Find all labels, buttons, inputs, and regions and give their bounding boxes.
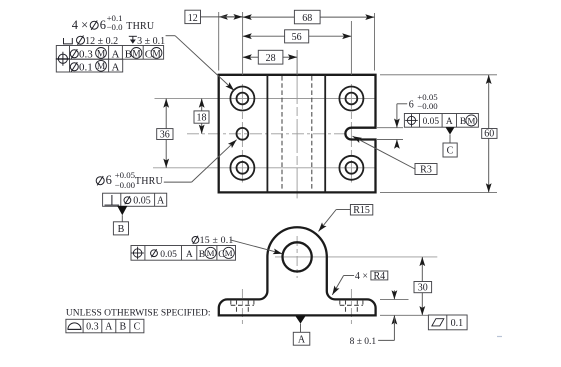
svg-text:0.1: 0.1 bbox=[79, 61, 93, 73]
svg-text:M: M bbox=[207, 248, 215, 258]
callout dia6 THRU (datum B hole) bbox=[96, 140, 236, 190]
horizontal centerline middle row bbox=[187, 133, 346, 135]
dimension 8±0.1 bbox=[350, 290, 395, 347]
vertical centerline plate middle bbox=[296, 70, 298, 198]
counterbored hole bottom-left bbox=[230, 156, 254, 180]
small hole datum B bbox=[237, 128, 249, 140]
hole vertical centerline bbox=[296, 236, 298, 278]
callout cbore dia12 depth 3 bbox=[64, 36, 235, 91]
svg-text:B: B bbox=[199, 250, 205, 260]
svg-text:60: 60 bbox=[484, 129, 494, 140]
extension line right hole centerline (top) bbox=[350, 21, 352, 75]
svg-text:A: A bbox=[105, 322, 113, 333]
svg-text:A: A bbox=[446, 117, 453, 127]
vertical centerline left hole column bbox=[241, 84, 243, 183]
svg-text:R4: R4 bbox=[373, 271, 385, 282]
svg-text:THRU: THRU bbox=[135, 176, 164, 187]
svg-text:4 ×: 4 × bbox=[355, 271, 368, 282]
position FCF dia15 bbox=[131, 246, 236, 261]
svg-text:28: 28 bbox=[266, 53, 276, 64]
extension base top right bbox=[380, 298, 409, 300]
svg-text:A: A bbox=[298, 335, 306, 346]
horizontal centerline bottom hole row bbox=[153, 167, 376, 169]
leader to top-left hole bbox=[166, 35, 176, 37]
svg-text:R3: R3 bbox=[420, 164, 432, 175]
svg-text:0.05: 0.05 bbox=[423, 117, 440, 127]
svg-text:30: 30 bbox=[418, 283, 428, 294]
svg-text:M: M bbox=[467, 116, 475, 126]
svg-text:UNLESS OTHERWISE SPECIFIED:: UNLESS OTHERWISE SPECIFIED: bbox=[66, 309, 211, 319]
hidden line bore left bbox=[281, 76, 283, 191]
dimension 36 bbox=[157, 99, 173, 168]
profile of surface FCF bbox=[66, 319, 144, 333]
svg-text:M: M bbox=[225, 248, 233, 258]
svg-text:−0.00: −0.00 bbox=[115, 180, 136, 190]
svg-text:C: C bbox=[134, 322, 141, 333]
svg-text:B: B bbox=[119, 322, 126, 333]
hole dia15 front bbox=[283, 242, 312, 271]
dimension 6 notch bbox=[397, 92, 438, 146]
horizontal centerline top hole row bbox=[155, 98, 376, 100]
dia15 callout bbox=[192, 235, 282, 254]
hidden lines left flange bbox=[231, 300, 254, 315]
svg-text:56: 56 bbox=[292, 32, 302, 43]
svg-text:0.3: 0.3 bbox=[79, 48, 93, 60]
R3 callout bbox=[353, 136, 438, 175]
svg-text:B: B bbox=[118, 224, 125, 235]
counterbore symbol bbox=[64, 38, 73, 44]
svg-text:M: M bbox=[152, 49, 161, 59]
dimension 12 bbox=[185, 10, 243, 24]
svg-text:12: 12 bbox=[188, 13, 198, 24]
faint mark bbox=[497, 336, 502, 338]
datum B bbox=[113, 206, 128, 235]
datum C bbox=[443, 127, 457, 157]
svg-text:THRU: THRU bbox=[126, 21, 155, 32]
perpendicularity FCF bbox=[103, 193, 167, 206]
extension base bottom right bbox=[380, 314, 428, 316]
svg-text:18: 18 bbox=[197, 113, 207, 124]
svg-text:4 ×: 4 × bbox=[72, 18, 88, 32]
counterbored hole bottom-right bbox=[339, 156, 363, 180]
dimension 60 right side bbox=[380, 75, 497, 193]
composite position FCF bbox=[56, 46, 164, 74]
svg-text:+0.05: +0.05 bbox=[115, 170, 136, 180]
svg-text:6: 6 bbox=[100, 18, 106, 32]
dimension 68 bbox=[243, 10, 375, 24]
svg-text:M: M bbox=[97, 62, 106, 72]
depth symbol bbox=[129, 36, 137, 40]
hidden lines right flange bbox=[340, 300, 363, 315]
svg-text:A: A bbox=[157, 196, 165, 207]
hidden line bore right bbox=[311, 76, 313, 191]
hole horizontal centerline / extension to 30 dim bbox=[275, 256, 437, 258]
svg-text:R15: R15 bbox=[353, 205, 370, 216]
extension line left hole centerline (top) bbox=[242, 12, 244, 75]
callout 4x dia6 THRU bbox=[72, 13, 155, 32]
boss edge left bbox=[266, 75, 268, 193]
plate outline with notch bbox=[219, 75, 376, 193]
flange centerline right bbox=[350, 289, 352, 327]
4x R4 callout bbox=[332, 271, 388, 295]
svg-text:M: M bbox=[97, 49, 106, 59]
svg-text:0.1: 0.1 bbox=[451, 318, 464, 329]
svg-text:36: 36 bbox=[160, 130, 170, 141]
boss edge right bbox=[324, 75, 326, 193]
R15 callout bbox=[319, 205, 373, 232]
extension line plate right edge (top) bbox=[374, 13, 376, 71]
position symbol bbox=[56, 52, 70, 66]
svg-text:0.3: 0.3 bbox=[86, 322, 99, 333]
svg-text:0.05: 0.05 bbox=[160, 250, 177, 260]
flatness FCF bbox=[428, 315, 467, 330]
dimension 18 bbox=[194, 99, 209, 134]
svg-text:6: 6 bbox=[409, 99, 414, 110]
svg-text:A: A bbox=[112, 48, 120, 60]
feature control frame position 0.05 A B(M) bbox=[404, 114, 478, 128]
svg-text:68: 68 bbox=[302, 13, 312, 24]
svg-text:−0.0: −0.0 bbox=[107, 22, 124, 32]
dimension 30 bbox=[414, 257, 432, 315]
notch extension lines bbox=[377, 127, 403, 129]
datum A bbox=[293, 316, 310, 346]
svg-text:8 ± 0.1: 8 ± 0.1 bbox=[350, 337, 377, 347]
svg-text:A: A bbox=[112, 61, 120, 73]
counterbored hole top-left bbox=[230, 87, 254, 111]
svg-text:15 ± 0.1: 15 ± 0.1 bbox=[200, 235, 234, 246]
svg-text:6: 6 bbox=[106, 173, 112, 187]
bracket outline bbox=[219, 227, 376, 315]
dimension 56 bbox=[243, 30, 352, 43]
counterbored hole top-right bbox=[339, 87, 363, 111]
flange centerline left bbox=[241, 289, 243, 327]
svg-text:C: C bbox=[447, 146, 454, 157]
extension line plate left edge (top) bbox=[218, 12, 220, 71]
extension line plate center (top) bbox=[296, 50, 298, 75]
dimension 28 bbox=[243, 50, 298, 64]
svg-text:0.05: 0.05 bbox=[133, 196, 151, 207]
svg-text:−0.00: −0.00 bbox=[417, 101, 438, 111]
vertical centerline right hole column bbox=[350, 84, 352, 183]
svg-text:A: A bbox=[186, 250, 193, 260]
svg-text:M: M bbox=[132, 49, 141, 59]
svg-text:B: B bbox=[460, 117, 466, 127]
